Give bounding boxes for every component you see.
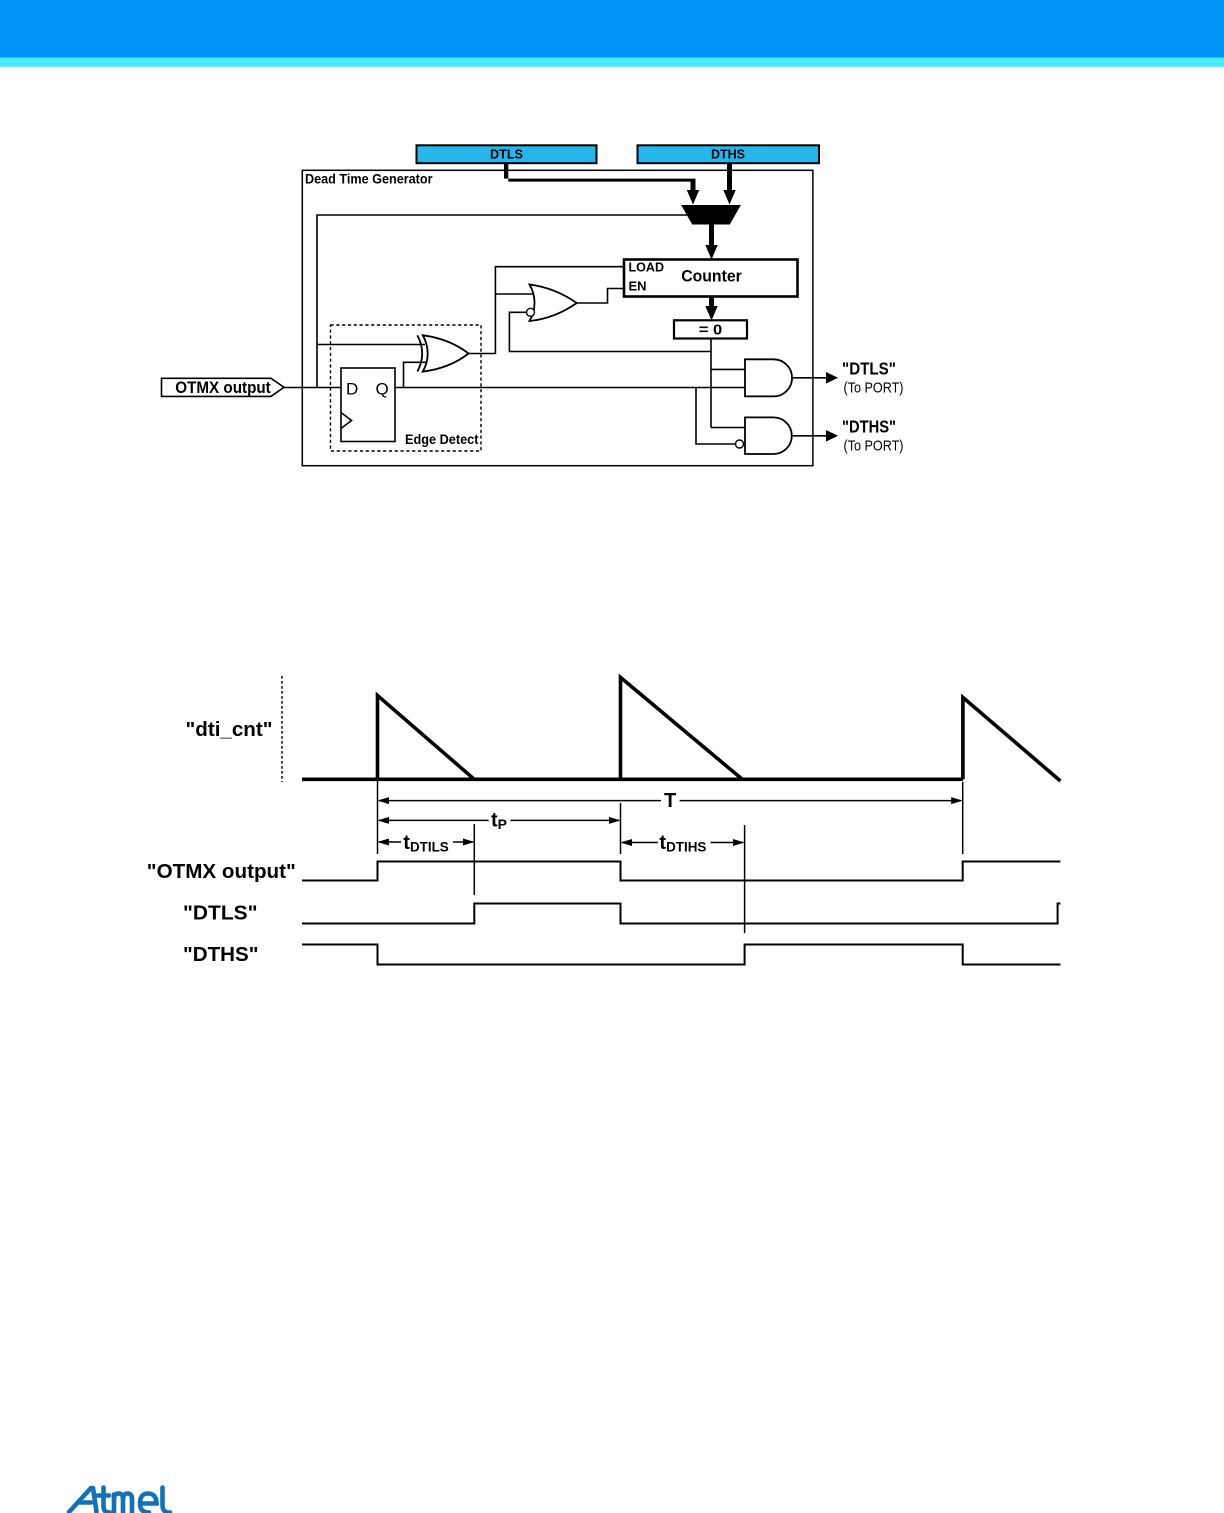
counter box [624, 260, 798, 297]
wire AND2 output arrow DTHS [792, 430, 838, 442]
xor gate [417, 335, 468, 371]
header blue band [0, 0, 1224, 58]
svg-text:"OTMX output": "OTMX output" [147, 861, 296, 883]
register DTLS [417, 145, 597, 163]
nor gate [527, 285, 577, 322]
edge detect dashed box [331, 325, 482, 451]
svg-text:LOAD: LOAD [629, 260, 665, 275]
comparator = 0 box [674, 320, 747, 338]
svg-text:OTMX output: OTMX output [175, 378, 271, 397]
svg-text:EN: EN [629, 279, 647, 294]
waveform DTLS [302, 904, 1060, 924]
wire OTMX to AND2 inverted input [696, 388, 735, 445]
svg-text:Edge Detect: Edge Detect [405, 432, 479, 447]
wire comparator output down [710, 339, 712, 428]
wire mux select feedback [317, 215, 688, 388]
wire feedback to XOR top input [317, 344, 425, 346]
marker line DTLS edge [473, 824, 475, 895]
wire comparator to NOR bottom input [509, 312, 711, 351]
svg-text:DTLS: DTLS [490, 147, 523, 162]
svg-text:Dead Time Generator: Dead Time Generator [305, 172, 433, 187]
wire NOR output to counter EN [577, 289, 624, 304]
svg-text:DTHS: DTHS [711, 147, 745, 162]
bus arrow mux to counter [705, 224, 717, 260]
header cyan stripe [0, 58, 1224, 68]
waveform dti_cnt baseline [302, 777, 963, 781]
wire comparator to AND1 top input [711, 368, 745, 370]
and gate A1 [745, 359, 792, 396]
flip-flop U1 [341, 368, 395, 442]
label DTLS to PORT [842, 358, 904, 396]
svg-text:"DTLS": "DTLS" [842, 358, 896, 378]
svg-text:D: D [346, 380, 358, 399]
bus arrow DTLS to mux [504, 162, 699, 205]
svg-text:"DTHS": "DTHS" [842, 416, 896, 436]
wire OTMX output to flip-flop D [284, 387, 341, 389]
svg-text:Q: Q [376, 380, 389, 399]
svg-text:(To PORT): (To PORT) [844, 380, 904, 397]
marker line DTHS edge [744, 825, 746, 933]
dimension arrow T [378, 790, 963, 812]
dead time generator outer box [302, 170, 813, 465]
wire Q to XOR bottom input [404, 362, 427, 387]
svg-text:Counter: Counter [681, 268, 742, 286]
svg-text:T: T [664, 790, 676, 812]
marker line t0 [377, 781, 379, 854]
waveform DTHS [302, 945, 1060, 965]
wire Q output line [395, 387, 745, 389]
dimension arrow tDTILS [378, 832, 475, 854]
wire branch to NOR top input [495, 293, 536, 295]
waveform sawtooth 3 [963, 697, 1061, 781]
svg-text:"DTHS": "DTHS" [183, 944, 259, 966]
svg-text:= 0: = 0 [699, 321, 723, 338]
marker line period end [962, 782, 964, 854]
waveform OTMX output [302, 862, 1060, 881]
svg-text:(To PORT): (To PORT) [844, 438, 904, 455]
register DTHS [638, 145, 820, 163]
svg-text:"DTLS": "DTLS" [183, 903, 258, 925]
label DTHS to PORT [842, 416, 904, 454]
wire AND1 output arrow DTLS [792, 372, 838, 384]
dashed axis [281, 676, 283, 782]
mux [682, 206, 740, 225]
bus arrow counter to comparator [705, 297, 717, 321]
and gate A2 with inverted input [736, 417, 792, 454]
bus arrow DTHS to mux [723, 163, 735, 205]
dimension arrow tP [378, 810, 621, 833]
Atmel logo [69, 1488, 170, 1513]
node OTMX input [162, 378, 285, 397]
wire XOR output to counter LOAD [469, 267, 624, 354]
wire comparator to AND2 top input [711, 427, 745, 429]
marker line OTMX fall [620, 803, 622, 854]
waveform sawtooth 2 [621, 677, 743, 779]
dimension arrow tDTIHS [621, 832, 745, 854]
waveform sawtooth 1 [378, 696, 475, 780]
svg-text:"dti_cnt": "dti_cnt" [186, 719, 273, 741]
